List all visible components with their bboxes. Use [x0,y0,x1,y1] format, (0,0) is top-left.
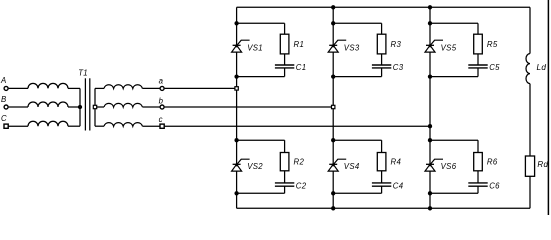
wire: leg 3 middle segment [429,77,431,141]
wire: C4 to rejoin [333,186,381,193]
terminal A [4,86,8,90]
transformer T1 secondary winding a [104,85,142,89]
wire: primary star connection [79,88,81,126]
junction: secondary star point [93,105,96,108]
transformer T1 primary winding C [28,121,68,126]
junction: top bus / leg VS3 [331,5,335,9]
wire: R5 to C5 [477,54,479,65]
junction: leg 1 bottom rejoin node [234,191,238,195]
wire: leg 1 middle segment [236,77,238,141]
wire: phase b to leg 2 [165,106,334,108]
wire: C6 to rejoin [430,186,478,193]
wire: primary A to star point [68,87,80,89]
wire: leg 2 middle segment [332,77,334,141]
transformer T1 primary winding B [28,102,68,107]
wire: phase a to leg 1 [165,87,237,89]
wire: C5 to rejoin [430,68,478,77]
wire: secondary a from star point [95,87,104,89]
wire: VS2 cathode lead [236,140,238,164]
wire: VS1 cathode lead [236,23,238,45]
resistor R2 [280,153,289,171]
wire: VS1 anode lead [236,52,238,77]
capacitor C1 [275,65,294,68]
svg-text:a: a [159,77,164,86]
wire: bottom split to R4 branch [333,140,381,152]
junction: leg 3 top split node [428,21,432,25]
capacitor C3 [372,65,391,68]
junction: leg 2 bottom rejoin node [331,191,335,195]
thyristor VS5 [425,40,443,52]
junction: phase c / leg 3 (node c) [428,124,432,128]
wire: top bus to inductor Ld [529,7,531,53]
wire: secondary c from star point [95,125,104,127]
wire: positive top bus [237,6,530,8]
svg-text:R1: R1 [294,40,305,49]
svg-text:A: A [0,76,7,85]
svg-text:C6: C6 [489,182,500,191]
svg-text:C3: C3 [393,63,404,72]
junction: leg 2 bottom split node [331,138,335,142]
thyristor VS2 [232,159,250,171]
wire: R2 to C2 [284,171,286,183]
wire: VS3 cathode lead [332,23,334,45]
junction: leg 1 top rejoin node [234,74,238,78]
junction: phase b / leg 2 (node b) [332,105,335,108]
svg-text:R6: R6 [487,157,498,166]
terminal B [4,105,8,109]
wire: input C lead [8,125,28,127]
svg-text:R5: R5 [487,40,498,49]
resistor R4 [377,153,386,171]
junction: leg 1 top split node [234,21,238,25]
junction: bottom bus / leg VS4 [331,206,335,210]
resistor R5 [474,34,483,54]
terminal a [160,86,164,90]
capacitor C5 [468,65,487,68]
svg-text:VS6: VS6 [441,162,457,171]
wire: input B lead [9,106,28,108]
wire: R1 to C1 [284,54,286,65]
svg-text:B: B [1,95,7,104]
svg-text:C4: C4 [393,182,404,191]
wire: C1 to rejoin [237,68,285,77]
wire: leg 3 top bus to split [429,7,431,23]
svg-text:VS3: VS3 [344,44,360,53]
capacitor C6 [468,183,487,186]
wire: C2 to rejoin [237,186,285,193]
junction: top bus / leg VS5 [428,5,432,9]
wire: secondary a to terminal [142,87,159,89]
wire: leg 1 top bus to split [236,7,238,23]
wire: phase c to leg 3 [165,125,430,127]
capacitor C4 [372,183,391,186]
wire: R4 to C4 [381,171,383,183]
wire: primary C to star point [68,125,80,127]
thyristor VS3 [328,40,346,52]
svg-text:VS5: VS5 [441,44,457,53]
svg-text:C: C [1,114,7,123]
wire: input A lead [9,87,28,89]
wire: top split to R1 branch [237,23,285,34]
wire: leg 1 to bottom bus [236,193,238,208]
thyristor VS6 [425,159,443,171]
wire: VS3 anode lead [332,52,334,77]
resistor R1 [280,34,289,54]
transformer T1 primary winding A [28,83,68,88]
svg-text:VS2: VS2 [247,162,263,171]
svg-text:R4: R4 [391,157,402,166]
junction: leg 2 top split node [331,21,335,25]
terminal b [160,105,164,109]
wire: VS6 anode lead [429,171,431,193]
wire: VS2 anode lead [236,171,238,193]
terminal C [4,124,8,128]
thyristor VS1 [232,40,250,52]
wire: inductor Ld to resistor Rd [529,84,531,156]
wire: leg 2 to bottom bus [332,193,334,208]
thyristor VS4 [328,159,346,171]
junction: leg 3 top rejoin node [428,74,432,78]
svg-text:b: b [159,97,164,106]
svg-text:C2: C2 [296,182,307,191]
wire: bottom split to R2 branch [237,140,285,152]
wire: primary B to star point [68,106,80,108]
junction: leg 1 bottom split node [234,138,238,142]
wire: VS4 cathode lead [332,140,334,164]
junction: leg 3 bottom rejoin node [428,191,432,195]
wire: C3 to rejoin [333,68,381,77]
svg-text:VS4: VS4 [344,162,360,171]
svg-text:T1: T1 [78,69,88,78]
wire: secondary b from star point [95,106,104,108]
junction: leg 3 bottom split node [428,138,432,142]
wire: R3 to C3 [381,54,383,65]
resistor R3 [377,34,386,54]
svg-text:Ld: Ld [537,63,547,72]
capacitor C2 [275,183,294,186]
resistor R6 [474,153,483,171]
transformer T1 secondary winding b [104,103,142,107]
junction: leg 2 top rejoin node [331,74,335,78]
junction: phase a / leg 1 (node a) [235,87,238,90]
svg-text:R2: R2 [294,157,305,166]
wire: secondary b to terminal [142,106,159,108]
svg-text:C5: C5 [489,63,500,72]
wire: leg 2 top bus to split [332,7,334,23]
wire: secondary star connection [94,88,96,126]
wire: leg 3 to bottom bus [429,193,431,208]
wire: VS5 cathode lead [429,23,431,45]
wire: top split to R5 branch [430,23,478,34]
wire: bottom split to R6 branch [430,140,478,152]
inductor Ld [526,54,530,84]
wire: R6 to C6 [477,171,479,183]
wire: resistor Rd to bottom bus [529,176,531,208]
resistor Rd [525,156,534,176]
svg-text:c: c [159,115,163,124]
svg-text:Rd: Rd [537,160,548,169]
transformer T1 core [85,78,89,130]
page border (right edge) [547,0,549,215]
wire: secondary c to terminal [142,125,159,127]
wire: top split to R3 branch [333,23,381,34]
wire: VS4 anode lead [332,171,334,193]
wire: VS6 cathode lead [429,140,431,164]
svg-text:VS1: VS1 [247,44,263,53]
junction: bottom bus / leg VS6 [428,206,432,210]
terminal c [160,124,164,128]
wire: negative bottom bus [237,207,530,209]
junction: primary star point [78,105,82,109]
wire: VS5 anode lead [429,52,431,77]
svg-text:R3: R3 [391,40,402,49]
svg-text:C1: C1 [296,63,307,72]
transformer T1 secondary winding c [104,123,142,127]
